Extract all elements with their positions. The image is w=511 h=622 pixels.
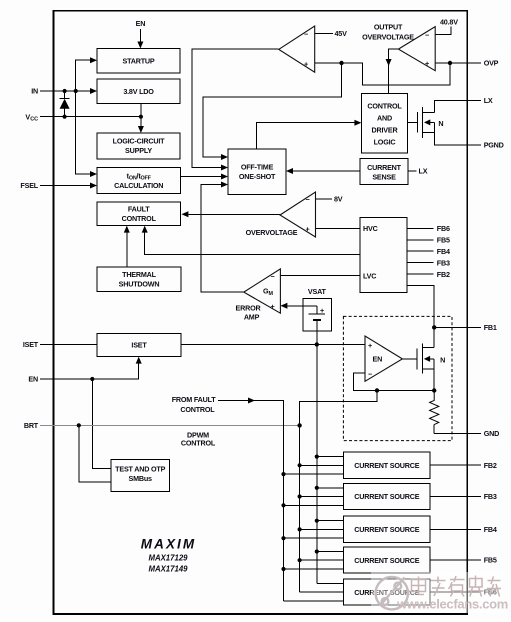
svg-text:VSAT: VSAT <box>308 287 327 296</box>
block CURRENT SOURCE 3 <box>344 516 431 542</box>
wire 8V reference stub <box>316 198 333 200</box>
wire 45V reference stub <box>315 33 333 35</box>
svg-text:FB3: FB3 <box>437 259 450 268</box>
wire BRT input line <box>40 424 300 426</box>
wire Q2 source down <box>433 369 435 390</box>
wire Q1 drain to LX pin <box>434 100 481 112</box>
svg-text:LVC: LVC <box>363 272 376 281</box>
node IN branch junction <box>74 89 78 93</box>
svg-text:LOGIC-CIRCUIT: LOGIC-CIRCUIT <box>113 136 166 145</box>
svg-text:FB6: FB6 <box>437 224 450 233</box>
svg-text:LX: LX <box>484 96 493 105</box>
svg-text:CURRENT SOURCE: CURRENT SOURCE <box>354 492 419 501</box>
svg-text:ERROR: ERROR <box>236 304 262 313</box>
wire resistor to GND output line <box>434 425 481 434</box>
svg-text:SHUTDOWN: SHUTDOWN <box>119 280 160 289</box>
svg-text:ISET: ISET <box>131 340 147 349</box>
wire current source outputs to FB pins <box>430 465 481 592</box>
block OFF-TIME ONE-SHOT <box>228 149 286 195</box>
svg-text:OVERVOLTAGE: OVERVOLTAGE <box>362 33 414 42</box>
watermark chinese characters <box>412 576 502 597</box>
transistor Q2 N-channel FB1 MOSFET <box>402 344 434 374</box>
wire 3.8V LDO to LOGIC-CIRCUIT SUPPLY <box>138 104 144 134</box>
svg-text:ONE-SHOT: ONE-SHOT <box>239 172 276 181</box>
wire HVC/LVC block to fault control <box>142 226 360 255</box>
svg-text:MAX17149: MAX17149 <box>148 565 188 574</box>
svg-text:FB4: FB4 <box>437 247 450 256</box>
svg-text:STARTUP: STARTUP <box>122 57 154 66</box>
block ISET <box>97 334 181 357</box>
svg-text:CC: CC <box>30 117 38 123</box>
wire EN input line with arrow into ISET <box>40 357 142 379</box>
node EN branch junction <box>90 377 94 381</box>
svg-text:3.8V LDO: 3.8V LDO <box>123 87 154 96</box>
wire 40.8V reference stub <box>435 27 451 35</box>
svg-text:OVP: OVP <box>484 59 499 68</box>
wire VCC input line <box>40 116 141 118</box>
node BRT branch junction <box>77 423 81 427</box>
block STARTUP <box>97 49 180 73</box>
svg-text:−: − <box>425 31 429 40</box>
svg-text:FB3: FB3 <box>484 492 497 501</box>
svg-text:45V: 45V <box>335 29 348 38</box>
wire one-shot output to control and driver logic <box>256 120 361 149</box>
comparator U3 8V overvoltage <box>280 192 316 237</box>
node ISET op-amp junction <box>315 342 319 346</box>
svg-text:M: M <box>269 291 274 297</box>
wire 45V comparator output to one-shot input 2 <box>192 49 279 170</box>
svg-text:EN: EN <box>136 19 146 28</box>
svg-text:CONTROL: CONTROL <box>367 101 402 110</box>
svg-text:CURRENT SOURCE: CURRENT SOURCE <box>354 556 419 565</box>
svg-text:CONTROL: CONTROL <box>181 438 216 447</box>
svg-text:CURRENT SOURCE: CURRENT SOURCE <box>354 525 419 534</box>
resistor R1 FB1 sense resistor <box>430 391 439 425</box>
svg-text:FB5: FB5 <box>484 556 497 565</box>
dashed box FB1 regulator <box>343 316 452 440</box>
svg-text:+: + <box>425 59 429 68</box>
wire HVC/LVC FB6 stub <box>407 227 434 229</box>
svg-text:FROM FAULT: FROM FAULT <box>172 395 217 404</box>
wire VSAT battery minus terminal down <box>316 331 318 345</box>
node OVP sense junction A <box>339 61 343 65</box>
node VCC-LDO junction <box>139 115 143 119</box>
block CURRENT SOURCE 5 <box>344 579 431 605</box>
node feedback tap junction <box>375 388 379 392</box>
diode D1 between VCC and IN <box>60 91 70 117</box>
comparator U1 45V output overvoltage <box>279 26 315 72</box>
wire IN input line <box>40 88 97 94</box>
wire EN branch to TEST AND OTP block <box>92 379 111 469</box>
svg-text:N: N <box>438 119 443 128</box>
svg-text:LX: LX <box>419 167 428 176</box>
comparator U2 40.8V output overvoltage <box>398 27 435 71</box>
svg-text:40.8V: 40.8V <box>440 18 458 27</box>
svg-text:CURRENT: CURRENT <box>367 163 402 172</box>
svg-text:+: + <box>304 60 308 69</box>
svg-text:AND: AND <box>377 113 392 122</box>
block CURRENT SOURCE 1 <box>344 452 431 478</box>
wire Q1 source to PGND pin <box>434 133 481 145</box>
watermark washout overlay <box>371 572 504 613</box>
svg-text:CONTROL: CONTROL <box>180 405 215 414</box>
block CURRENT SOURCE 4 <box>344 547 431 573</box>
svg-text:EN: EN <box>28 375 38 384</box>
wire OVP net (comparator + inputs to OVP pin) <box>315 63 481 85</box>
svg-text:ISET: ISET <box>23 340 39 349</box>
node Q2 source junction <box>432 388 436 392</box>
svg-text:CONTROL: CONTROL <box>122 214 157 223</box>
node DPWM bus taps <box>298 463 302 467</box>
svg-text:LOGIC: LOGIC <box>374 137 396 146</box>
wire ISET input line <box>40 344 97 346</box>
wire HVC/LVC FB2 stub <box>407 273 434 275</box>
wire ISET reference bus down to current sources <box>317 345 344 584</box>
svg-text:FB1: FB1 <box>484 323 497 332</box>
svg-text:−: − <box>368 370 372 379</box>
wire Q2 drain to FB1 node <box>433 327 435 347</box>
block THERMAL SHUTDOWN <box>97 267 181 292</box>
svg-text:OUTPUT: OUTPUT <box>374 23 403 32</box>
wire BRT branch to TEST AND OTP block <box>79 425 111 482</box>
wire HVC/LVC FB3 stub <box>407 262 434 264</box>
node FB1 junction <box>432 325 436 329</box>
wire thermal shutdown to fault control <box>124 226 130 267</box>
block tON/tOFF CALCULATION <box>97 167 181 193</box>
svg-text:+: + <box>271 302 275 311</box>
wire EN arrow into STARTUP <box>137 29 143 49</box>
svg-text:−: − <box>306 195 310 204</box>
transistor Q1 N-channel power MOSFET <box>408 107 435 138</box>
svg-text:SENSE: SENSE <box>372 173 396 182</box>
svg-text:FB4: FB4 <box>484 525 497 534</box>
wire HVC/LVC FB5 stub <box>407 239 434 241</box>
op-amp U5 FB1 regulator EN amp <box>365 336 402 381</box>
svg-text:8V: 8V <box>334 195 343 204</box>
wire OVP sense net down into one-shot input 1 <box>203 63 342 160</box>
block 3.8V LDO <box>97 79 180 104</box>
wire FROM FAULT CONTROL line down DPWM bus <box>218 398 344 601</box>
svg-text:SUPPLY: SUPPLY <box>125 146 152 155</box>
svg-text:−: − <box>271 272 275 281</box>
wire LVC line to GM amp minus input <box>280 275 360 277</box>
block HVC/LVC comparator bank <box>360 218 407 293</box>
node ISET bus taps <box>315 455 319 459</box>
node fault bus taps <box>281 472 285 476</box>
battery VSAT source symbol <box>303 306 325 331</box>
wire op-amp feedback loop and DPWM control bus <box>300 373 435 592</box>
svg-text:BRT: BRT <box>24 421 39 430</box>
svg-text:OFF-TIME: OFF-TIME <box>241 162 274 171</box>
wire current sense output into one-shot right edge <box>286 168 360 174</box>
svg-text:SMBus: SMBus <box>129 474 153 483</box>
svg-text:www.elecfans.com: www.elecfans.com <box>396 597 508 612</box>
svg-text:CURRENT SOURCE: CURRENT SOURCE <box>354 461 419 470</box>
svg-text:EN: EN <box>373 355 383 364</box>
svg-text:THERMAL: THERMAL <box>122 270 157 279</box>
wire HVC input line <box>316 228 361 230</box>
block LOGIC-CIRCUIT SUPPLY <box>97 133 180 159</box>
svg-text:PGND: PGND <box>484 141 504 150</box>
wire GM amp plus input stub <box>280 303 302 309</box>
block VSAT <box>303 299 332 332</box>
svg-text:DRIVER: DRIVER <box>372 125 399 134</box>
svg-text:FB5: FB5 <box>437 236 450 245</box>
block CURRENT SENSE <box>360 159 408 185</box>
svg-text:+: + <box>306 225 310 234</box>
wire HVC/LVC FB4 stub <box>407 250 434 252</box>
block TEST AND OTP SMBus <box>111 460 169 492</box>
block CONTROL AND DRIVER LOGIC <box>361 94 407 154</box>
svg-text:FSEL: FSEL <box>20 181 38 190</box>
wire FB1 output line <box>434 326 481 328</box>
wire 8V overvoltage comparator output into FAULT CONTROL <box>181 211 280 217</box>
svg-text:MAXIM: MAXIM <box>141 537 197 552</box>
wire IN branch down to tON/tOFF calculation <box>76 91 97 177</box>
outer diagram border frame <box>54 11 468 614</box>
svg-text:+: + <box>320 306 324 315</box>
svg-text:MAX17129: MAX17129 <box>148 553 188 562</box>
svg-text:−: − <box>304 30 308 39</box>
svg-text:GND: GND <box>484 429 499 438</box>
svg-text:TEST AND OTP: TEST AND OTP <box>115 465 165 474</box>
node VCC-diode junction <box>63 115 67 119</box>
svg-text:IN: IN <box>31 87 38 96</box>
wire 40.8V comparator output down into driver logic <box>386 49 399 93</box>
svg-text:N: N <box>440 355 445 364</box>
svg-text:OVERVOLTAGE: OVERVOLTAGE <box>246 228 298 237</box>
wire tON/tOFF output to one-shot <box>181 174 229 180</box>
watermark logo circle <box>376 577 408 609</box>
wire ISET output to op-amp plus input <box>181 344 365 346</box>
wire IN branch up to STARTUP <box>76 57 97 91</box>
svg-text:FB2: FB2 <box>437 270 450 279</box>
amplifier U4 GM error amp <box>244 269 281 313</box>
wire HVC/LVC block output routed to FB1 node <box>407 285 434 327</box>
svg-text:FAULT: FAULT <box>128 205 150 214</box>
svg-text:FB2: FB2 <box>484 461 497 470</box>
wire current sense LX stub <box>408 170 417 172</box>
wire FSEL input line <box>40 183 97 189</box>
svg-text:HVC: HVC <box>363 224 378 233</box>
node IN-diode junction <box>63 89 67 93</box>
block CURRENT SOURCE 2 <box>344 483 431 509</box>
block FAULT CONTROL <box>97 202 181 225</box>
svg-text:AMP: AMP <box>244 313 260 322</box>
wire GM error amp output to one-shot input 4 <box>201 182 244 293</box>
svg-text:CALCULATION: CALCULATION <box>114 181 163 190</box>
svg-text:+: + <box>368 341 372 350</box>
node BRT-DPWM junction <box>297 423 301 427</box>
node OVP pin junction B <box>448 61 452 65</box>
